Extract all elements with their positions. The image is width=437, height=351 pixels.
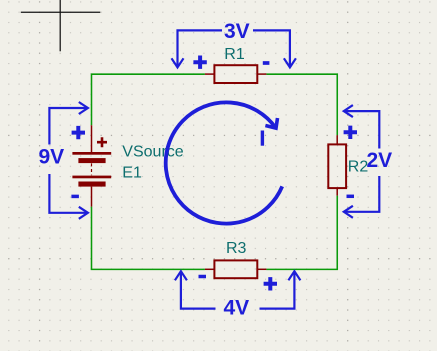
resistor R2 — [328, 135, 346, 195]
origin crosshair — [21, 0, 101, 51]
wire battery top to R1 left (node A) — [92, 74, 205, 125]
svg-text:R1: R1 — [224, 46, 245, 63]
current loop arrow — [166, 102, 282, 223]
resistor R1 — [205, 65, 267, 83]
polarity + at battery top — [72, 126, 85, 139]
polarity + at R1 left — [193, 56, 206, 69]
polarity - at R1 right — [263, 61, 270, 65]
svg-text:VSource: VSource — [122, 143, 183, 160]
svg-text:R3: R3 — [226, 240, 247, 257]
wire R1 right to R2 top (node B) — [266, 74, 337, 135]
voltage annotation 2V bracket — [344, 105, 380, 218]
voltage annotation 9V bracket — [49, 102, 88, 219]
polarity + at R2 top — [344, 126, 357, 139]
polarity - at R3 left — [199, 275, 207, 279]
polarity - at R2 bottom — [347, 195, 355, 199]
polarity + at R3 right — [264, 277, 277, 290]
svg-text:R2: R2 — [348, 158, 369, 175]
pin 1 positive mark — [97, 137, 107, 147]
resistor R3 — [205, 260, 267, 278]
svg-text:3V: 3V — [224, 20, 250, 43]
voltage annotation 4V bracket — [175, 271, 301, 308]
polarity - at battery bottom — [71, 195, 79, 199]
svg-text:2V: 2V — [366, 149, 392, 172]
label I — [261, 131, 264, 146]
svg-text:4V: 4V — [223, 297, 249, 320]
wire R3 left to battery bottom (node D) — [92, 207, 205, 270]
svg-text:9V: 9V — [38, 145, 64, 168]
svg-text:E1: E1 — [122, 165, 142, 182]
wire R2 bottom to R3 right (node C) — [266, 196, 337, 270]
battery E1 — [72, 125, 111, 206]
voltage annotation 3V bracket — [172, 30, 296, 67]
